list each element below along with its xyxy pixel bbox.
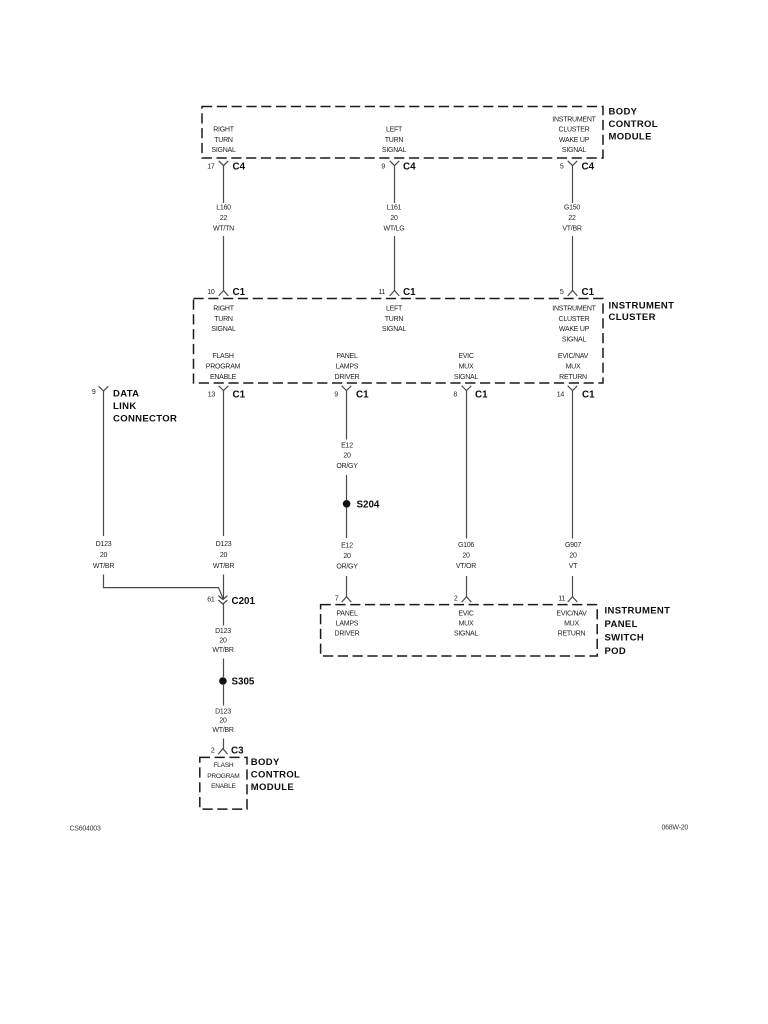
svg-text:20: 20 (390, 215, 398, 222)
svg-text:10: 10 (207, 289, 215, 296)
svg-text:MUX: MUX (566, 364, 581, 371)
connector C1 pin 9 (334, 386, 369, 401)
wire E12 to S204 (346, 475, 348, 500)
connector C1 pin 14 (557, 386, 595, 401)
connector C1 pin 10 (207, 287, 245, 298)
svg-text:SWITCH: SWITCH (605, 633, 645, 644)
svg-text:20: 20 (569, 553, 577, 560)
svg-text:WT/BR: WT/BR (93, 563, 114, 570)
panel lamps driver label (pod) (335, 611, 360, 638)
svg-text:DATA: DATA (113, 389, 139, 400)
svg-text:D123: D123 (96, 541, 112, 548)
svg-text:INSTRUMENT: INSTRUMENT (609, 301, 675, 312)
svg-text:DRIVER: DRIVER (335, 631, 360, 638)
flash program enable label (BCM bottom) (207, 762, 239, 790)
svg-text:11: 11 (378, 289, 385, 296)
wire G907 upper (572, 391, 574, 539)
svg-text:MUX: MUX (459, 621, 474, 628)
instrument cluster wake up signal label (BCM) (552, 116, 596, 154)
evic/nav mux return label (cluster) (558, 353, 589, 381)
svg-text:20: 20 (462, 553, 470, 560)
svg-text:S305: S305 (232, 677, 255, 688)
wire D123 from DLC lower, corner to C201 (104, 575, 224, 600)
svg-text:ENABLE: ENABLE (210, 374, 237, 381)
svg-text:22: 22 (568, 215, 576, 222)
svg-text:C1: C1 (356, 390, 369, 401)
connector C1 pin 8 (453, 386, 488, 401)
svg-text:EVIC: EVIC (458, 353, 474, 360)
svg-text:WT/BR: WT/BR (212, 727, 233, 734)
wire label D123 20 WT/BR (center) (213, 541, 234, 570)
svg-text:TURN: TURN (214, 316, 233, 323)
svg-text:SIGNAL: SIGNAL (211, 147, 236, 154)
svg-text:CS604003: CS604003 (70, 826, 101, 833)
svg-text:DRIVER: DRIVER (335, 374, 360, 381)
svg-text:INSTRUMENT: INSTRUMENT (552, 306, 596, 313)
wire below S305 (223, 685, 225, 706)
svg-text:VT: VT (569, 563, 578, 570)
svg-text:C201: C201 (232, 596, 256, 607)
svg-text:C4: C4 (582, 162, 595, 173)
svg-text:D123: D123 (215, 628, 231, 635)
svg-text:13: 13 (208, 392, 216, 399)
svg-text:SIGNAL: SIGNAL (454, 374, 479, 381)
svg-text:C1: C1 (233, 287, 246, 298)
svg-text:LAMPS: LAMPS (336, 364, 359, 371)
svg-text:PROGRAM: PROGRAM (206, 364, 241, 371)
splice S305 (219, 677, 255, 688)
svg-text:LAMPS: LAMPS (336, 621, 359, 628)
instrument cluster label (right) (609, 301, 675, 324)
wire label D123 20 WT/BR (left) (93, 541, 114, 570)
svg-text:MODULE: MODULE (251, 782, 294, 793)
svg-text:WT/TN: WT/TN (213, 226, 234, 233)
svg-text:2: 2 (454, 596, 458, 603)
svg-text:WAKE UP: WAKE UP (559, 326, 590, 333)
svg-text:C4: C4 (233, 162, 246, 173)
svg-text:WAKE UP: WAKE UP (559, 137, 590, 144)
svg-text:068W-20: 068W-20 (662, 825, 689, 832)
pod connector pin 7 (335, 596, 351, 603)
connector C3 pin 2 (211, 746, 244, 757)
evic mux signal label (cluster) (454, 353, 479, 381)
svg-text:LEFT: LEFT (386, 127, 403, 134)
wire G907 into pod (572, 576, 574, 597)
pod connector pin 11 (558, 596, 577, 603)
svg-text:WT/BR: WT/BR (213, 563, 234, 570)
svg-text:LINK: LINK (113, 401, 137, 412)
wire L160 lower (223, 236, 225, 291)
svg-text:CONTROL: CONTROL (609, 119, 658, 130)
wire label E12 20 OR/GY (lower) (336, 543, 358, 571)
svg-text:5: 5 (560, 164, 564, 171)
body control module box (bottom) (200, 757, 247, 809)
svg-text:INSTRUMENT: INSTRUMENT (552, 116, 596, 123)
svg-text:5: 5 (560, 289, 564, 296)
instrument panel switch pod box (321, 605, 598, 656)
data link connector pin 9 (92, 386, 108, 396)
svg-text:MUX: MUX (459, 364, 474, 371)
svg-text:BODY: BODY (251, 757, 280, 768)
svg-text:D123: D123 (216, 541, 232, 548)
svg-text:RETURN: RETURN (558, 631, 586, 638)
svg-text:17: 17 (207, 164, 215, 171)
flash program enable label (cluster) (206, 353, 241, 381)
instrument cluster wake up signal label (cluster) (552, 306, 596, 344)
svg-text:SIGNAL: SIGNAL (562, 147, 587, 154)
svg-text:14: 14 (557, 392, 565, 399)
svg-text:E12: E12 (341, 543, 353, 550)
svg-text:9: 9 (381, 164, 385, 171)
svg-text:CONNECTOR: CONNECTOR (113, 413, 177, 424)
svg-text:SIGNAL: SIGNAL (382, 326, 407, 333)
svg-text:PROGRAM: PROGRAM (207, 773, 239, 780)
wire G106 upper (466, 391, 468, 539)
connector C4 pin 17 (207, 161, 245, 173)
svg-text:INSTRUMENT: INSTRUMENT (605, 606, 671, 617)
svg-text:S204: S204 (357, 499, 380, 510)
connector C201 pin 61 (207, 596, 255, 607)
svg-text:RIGHT: RIGHT (213, 306, 235, 313)
wire E12 upper (346, 391, 348, 440)
svg-text:EVIC/NAV: EVIC/NAV (558, 353, 589, 360)
svg-text:BODY: BODY (609, 107, 638, 118)
data link connector label (113, 389, 177, 425)
svg-text:C1: C1 (582, 287, 595, 298)
wire label L160 22 WT/TN (213, 205, 234, 233)
svg-text:CLUSTER: CLUSTER (609, 312, 656, 323)
svg-text:WT/LG: WT/LG (384, 226, 405, 233)
connector C4 pin 5 (560, 161, 595, 173)
left turn signal label (cluster) (382, 306, 407, 334)
evic mux signal label (pod) (454, 611, 479, 638)
svg-text:G106: G106 (458, 542, 474, 549)
svg-text:C1: C1 (582, 390, 595, 401)
wire G150 lower (572, 236, 574, 291)
left turn signal label (BCM) (382, 127, 407, 155)
svg-text:ENABLE: ENABLE (211, 783, 236, 790)
svg-text:22: 22 (220, 215, 228, 222)
right turn signal label (cluster) (211, 306, 236, 334)
wire label G106 20 VT/OR (456, 542, 476, 570)
svg-text:SIGNAL: SIGNAL (382, 147, 407, 154)
panel lamps driver label (cluster) (335, 353, 360, 381)
wire label G907 20 VT (565, 542, 581, 570)
svg-text:C1: C1 (475, 390, 488, 401)
connector C1 pin 13 (208, 386, 246, 401)
svg-text:TURN: TURN (214, 137, 233, 144)
svg-text:11: 11 (558, 596, 565, 603)
svg-text:8: 8 (453, 392, 457, 399)
svg-text:POD: POD (605, 646, 627, 657)
svg-text:CONTROL: CONTROL (251, 769, 300, 780)
svg-text:20: 20 (343, 453, 351, 460)
svg-text:D123: D123 (215, 709, 231, 716)
svg-text:20: 20 (220, 552, 228, 559)
svg-text:C1: C1 (233, 390, 246, 401)
svg-text:C4: C4 (403, 162, 416, 173)
svg-text:TURN: TURN (385, 137, 404, 144)
wire into C3 (223, 739, 225, 749)
wire to S305 (223, 659, 225, 678)
svg-text:MODULE: MODULE (609, 132, 652, 143)
svg-text:RIGHT: RIGHT (213, 127, 235, 134)
svg-text:9: 9 (92, 389, 96, 396)
wire G106 into pod (466, 576, 468, 597)
svg-text:LEFT: LEFT (386, 306, 403, 313)
svg-text:20: 20 (343, 553, 351, 560)
svg-text:WT/BR: WT/BR (212, 647, 233, 654)
svg-text:20: 20 (219, 638, 227, 645)
wire D123 below C201 (223, 604, 225, 626)
svg-text:PANEL: PANEL (336, 353, 358, 360)
connector C1 pin 5 (560, 287, 595, 298)
wire label G150 22 VT/BR (562, 205, 582, 233)
instrument panel switch pod label (right) (605, 606, 671, 658)
svg-text:E12: E12 (341, 442, 353, 449)
wire D123 from DLC upper (103, 391, 105, 536)
svg-text:EVIC: EVIC (458, 611, 474, 618)
svg-text:OR/GY: OR/GY (336, 463, 358, 470)
svg-text:SIGNAL: SIGNAL (562, 336, 587, 343)
svg-text:VT/OR: VT/OR (456, 563, 476, 570)
connector C1 pin 11 (378, 287, 416, 298)
wire L161 lower (394, 236, 396, 291)
svg-text:G907: G907 (565, 542, 581, 549)
svg-text:PANEL: PANEL (336, 611, 358, 618)
svg-text:CLUSTER: CLUSTER (559, 127, 590, 134)
svg-text:61: 61 (207, 597, 215, 604)
svg-text:PANEL: PANEL (605, 619, 638, 630)
instrument cluster box (194, 299, 604, 384)
svg-text:FLASH: FLASH (212, 353, 234, 360)
svg-text:20: 20 (100, 552, 108, 559)
splice S204 (343, 499, 380, 510)
body control module label (bottom) (251, 757, 300, 793)
svg-text:C1: C1 (403, 287, 416, 298)
svg-text:CLUSTER: CLUSTER (559, 316, 590, 323)
wire E12 below S204 (346, 508, 348, 538)
svg-text:TURN: TURN (385, 316, 404, 323)
svg-text:2: 2 (211, 748, 215, 755)
svg-text:OR/GY: OR/GY (336, 564, 358, 571)
pod connector pin 2 (454, 596, 471, 603)
svg-text:C3: C3 (231, 746, 244, 757)
body control module box (top) (202, 107, 603, 159)
svg-text:G150: G150 (564, 205, 580, 212)
svg-text:SIGNAL: SIGNAL (211, 326, 236, 333)
svg-text:SIGNAL: SIGNAL (454, 631, 479, 638)
svg-text:EVIC/NAV: EVIC/NAV (556, 611, 587, 618)
svg-text:9: 9 (334, 392, 338, 399)
wire E12 into pod (346, 576, 348, 597)
wire label E12 20 OR/GY (upper) (336, 442, 358, 470)
svg-text:MUX: MUX (564, 621, 579, 628)
wire L160 upper (223, 166, 225, 203)
wire label L161 20 WT/LG (384, 205, 405, 233)
svg-text:L161: L161 (387, 205, 402, 212)
body control module label (top right) (609, 107, 658, 143)
wire L161 upper (394, 166, 396, 203)
svg-text:FLASH: FLASH (213, 762, 233, 769)
svg-text:VT/BR: VT/BR (562, 226, 582, 233)
svg-text:RETURN: RETURN (559, 374, 587, 381)
svg-text:7: 7 (335, 596, 339, 603)
wire G150 upper (572, 166, 574, 203)
wire label D123 20 WT/BR (above C3) (212, 709, 233, 734)
svg-text:20: 20 (219, 718, 227, 725)
wire label D123 20 WT/BR (below C201) (212, 628, 233, 654)
connector C4 pin 9 (381, 161, 416, 173)
evic/nav mux return label (pod) (556, 611, 587, 638)
wire D123 from cluster upper (223, 391, 225, 537)
wire D123 from cluster lower (223, 575, 225, 600)
svg-text:L160: L160 (216, 205, 231, 212)
right turn signal label (BCM) (211, 127, 236, 155)
